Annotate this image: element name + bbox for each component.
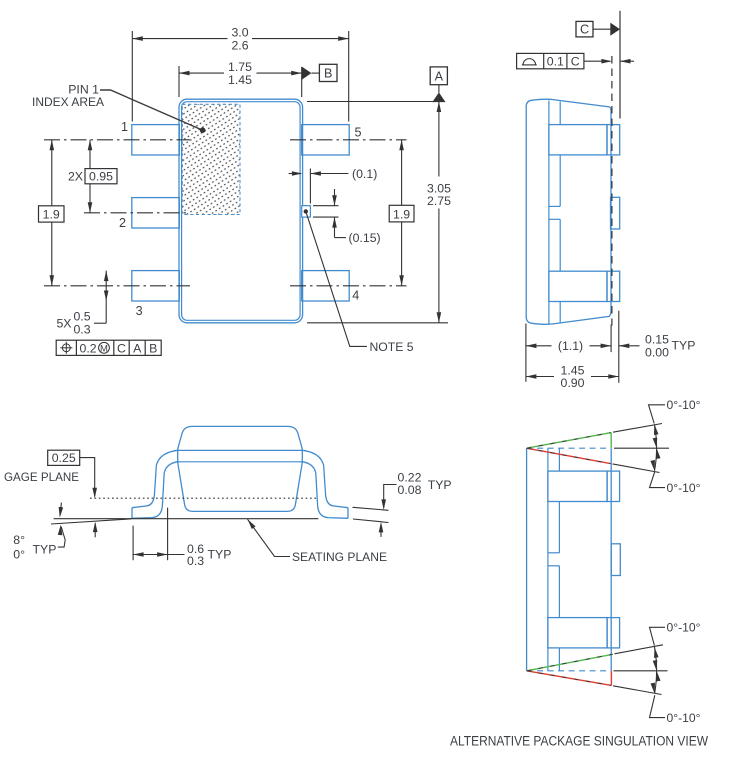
svg-text:SEATING PLANE: SEATING PLANE — [292, 550, 387, 564]
top annotation leaders and labels — [649, 405, 666, 424]
dimension (1.1) — [526, 345, 552, 347]
dimension 1.9 left — [51, 140, 53, 206]
seating plane label and leader — [248, 519, 291, 556]
front parting lines — [178, 449, 303, 451]
svg-text:C: C — [571, 55, 580, 69]
right gull-wing lead — [301, 450, 348, 518]
svg-text:(0.1): (0.1) — [352, 167, 377, 181]
feature control frame position 0.2 M C A B — [56, 340, 161, 355]
alt lead top — [548, 471, 607, 501]
pin 4 — [302, 271, 350, 301]
datum C plane line — [619, 11, 621, 119]
svg-text:8°: 8° — [13, 533, 25, 547]
alt lead bottom — [548, 618, 607, 648]
side inner edge line — [548, 101, 550, 324]
svg-text:4: 4 — [352, 289, 359, 303]
svg-text:5: 5 — [355, 126, 362, 140]
svg-text:0.5: 0.5 — [73, 309, 90, 323]
dimension 0.6/0.3 TYP — [132, 526, 134, 561]
dimension 5X 0.5/0.3 — [105, 271, 107, 324]
side notch — [549, 205, 560, 207]
svg-text:TYP: TYP — [428, 478, 452, 492]
fcf leader arrows — [584, 60, 610, 62]
svg-text:0°-10°: 0°-10° — [667, 481, 701, 495]
gage plane 0.25 box — [48, 450, 80, 465]
side lead middle stub — [611, 197, 620, 229]
TYP leader — [58, 540, 65, 547]
svg-text:2: 2 — [119, 216, 126, 230]
svg-text:ALTERNATIVE PACKAGE SINGULATIO: ALTERNATIVE PACKAGE SINGULATION VIEW — [450, 734, 708, 749]
dimension 1.75/1.45 — [179, 66, 302, 97]
svg-text:TYP: TYP — [33, 543, 57, 557]
singulation red line bottom — [527, 671, 612, 686]
0.25 lower arrow — [94, 524, 96, 538]
side parting line upper segment — [559, 102, 561, 125]
dimension 0.22/0.08 TYP — [353, 507, 389, 510]
svg-text:0.95: 0.95 — [89, 169, 113, 183]
mold gate notch (note 5 feature) — [302, 206, 311, 217]
dimension 0.15/0.00 TYP — [619, 345, 640, 347]
gage plane dotted line — [90, 497, 318, 499]
dimension 3.05/2.75 — [438, 102, 440, 177]
svg-text:2.6: 2.6 — [231, 38, 248, 52]
alt body left edge — [526, 448, 528, 671]
datum C box — [576, 21, 593, 37]
front body outline — [178, 426, 303, 511]
profile feature control frame 0.1 C — [517, 53, 584, 68]
alt dashed bottom edge — [527, 670, 612, 672]
singulation green line top — [527, 433, 612, 449]
centerline pin 3 — [44, 285, 190, 287]
alt body right edge — [610, 448, 612, 671]
angle arrows 8/0 — [60, 503, 61, 516]
profile of surface symbol — [523, 59, 536, 65]
datum B — [302, 67, 312, 80]
datum A — [430, 67, 447, 85]
svg-text:3: 3 — [136, 304, 143, 318]
centerline pin 1 — [44, 139, 190, 141]
pin 1 index area (stippled) — [182, 104, 240, 214]
centerline pin 4 — [290, 285, 407, 287]
svg-text:0°-10°: 0°-10° — [667, 621, 701, 635]
alt notch — [548, 552, 560, 554]
svg-text:1.45: 1.45 — [228, 73, 252, 87]
pin 3 — [132, 271, 180, 301]
svg-text:0°: 0° — [13, 547, 25, 561]
datum zone dashed line — [611, 56, 613, 326]
svg-text:0.1: 0.1 — [547, 55, 564, 69]
svg-text:C: C — [117, 341, 126, 355]
alt inner edge line — [547, 448, 549, 671]
svg-text:B: B — [149, 341, 157, 355]
alt parting line segments — [558, 448, 560, 471]
top annotation arcs — [654, 424, 656, 448]
svg-text:2.75: 2.75 — [427, 194, 451, 208]
svg-text:TYP: TYP — [208, 547, 232, 561]
svg-text:(0.15): (0.15) — [349, 231, 381, 245]
singulation green line bottom — [527, 654, 613, 671]
singulation red line top — [527, 448, 611, 463]
side parting line lower segments — [559, 219, 561, 271]
svg-text:A: A — [133, 341, 142, 355]
dimension 3.0/2.6 — [132, 31, 348, 122]
gage leader — [80, 458, 95, 497]
0 degree line — [51, 519, 132, 524]
svg-text:INDEX AREA: INDEX AREA — [32, 95, 105, 109]
svg-text:1.9: 1.9 — [43, 208, 60, 222]
bottom annotation arcs — [655, 647, 657, 671]
svg-text:0.00: 0.00 — [645, 345, 669, 359]
pin 5 — [302, 125, 350, 155]
package body outer outline — [179, 99, 303, 323]
svg-text:0°-10°: 0°-10° — [667, 711, 701, 725]
svg-text:0.3: 0.3 — [187, 554, 204, 568]
centerline pin 2 — [84, 212, 190, 214]
svg-text:0.2: 0.2 — [80, 341, 97, 355]
bottom annotation extension lines — [615, 645, 664, 654]
svg-text:0°-10°: 0°-10° — [667, 398, 701, 412]
svg-text:A: A — [435, 69, 444, 83]
left gull-wing lead — [132, 450, 179, 518]
pin 1 — [132, 125, 180, 155]
pin 2 — [132, 198, 180, 228]
dimension 1.45/0.90 — [526, 376, 554, 378]
alt dashed top edge — [527, 447, 610, 449]
dimension 1.9 right — [401, 140, 403, 206]
dimension (0.15) — [313, 205, 339, 207]
svg-text:B: B — [324, 67, 332, 81]
svg-text:C: C — [580, 23, 589, 37]
top annotation extension lines — [613, 424, 662, 433]
svg-text:0.90: 0.90 — [561, 376, 585, 390]
side parting line middle segment — [559, 155, 561, 207]
extension line body bottom — [307, 322, 448, 324]
svg-text:1.75: 1.75 — [228, 60, 252, 74]
side lead bottom — [549, 271, 607, 301]
svg-text:TYP: TYP — [672, 338, 696, 352]
alt lead middle stub — [611, 544, 620, 576]
datum C triangle — [610, 23, 620, 36]
dimension (0.1) — [289, 173, 301, 175]
svg-text:3.0: 3.0 — [231, 25, 248, 39]
svg-text:1.45: 1.45 — [561, 363, 585, 377]
svg-text:1: 1 — [121, 120, 128, 134]
side body outline — [526, 99, 611, 324]
svg-text:GAGE PLANE: GAGE PLANE — [4, 470, 79, 484]
svg-text:5X: 5X — [56, 317, 71, 331]
note 5 leader — [304, 209, 308, 213]
svg-text:0.25: 0.25 — [52, 451, 76, 465]
svg-text:M: M — [100, 343, 108, 354]
svg-text:0.08: 0.08 — [398, 483, 422, 497]
dimension 2X 0.95 — [89, 140, 91, 213]
centerline pin 5 — [290, 139, 407, 141]
svg-text:1.9: 1.9 — [393, 207, 410, 221]
extension line body top — [307, 101, 445, 103]
svg-text:(1.1): (1.1) — [558, 339, 583, 353]
svg-text:0.3: 0.3 — [73, 323, 90, 337]
side dim extension lines — [525, 324, 527, 382]
bottom annotation leaders and labels — [650, 627, 666, 645]
svg-text:NOTE 5: NOTE 5 — [370, 340, 414, 354]
side lead top — [549, 125, 607, 155]
pin 1 index leader — [100, 90, 203, 130]
package body inner outline — [182, 102, 301, 321]
svg-text:2X: 2X — [68, 169, 83, 183]
seating plane line — [54, 518, 319, 520]
